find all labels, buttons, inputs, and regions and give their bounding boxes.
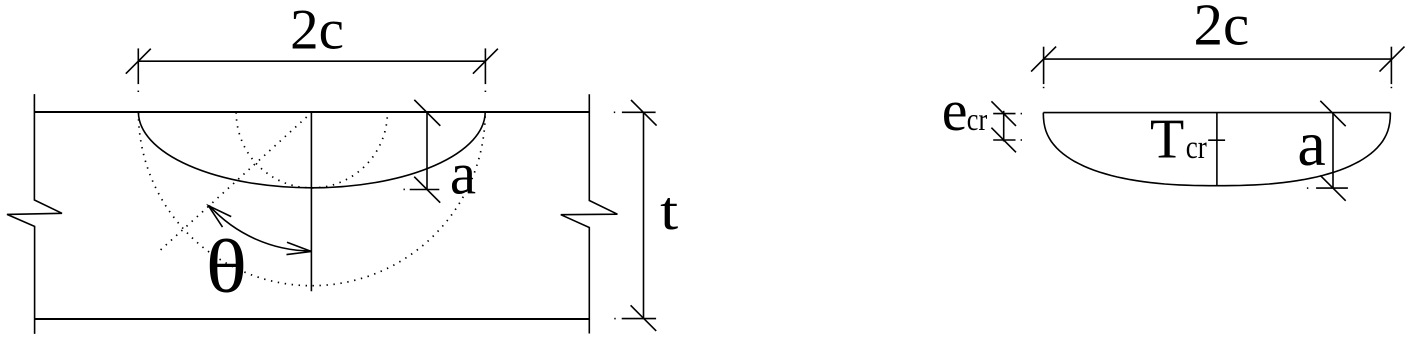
2c right-fig right extension dot [1390,87,1392,88]
svg-text:T: T [1150,108,1184,170]
dimension a: vertical line [426,112,428,190]
a right bottom extension line [1316,187,1348,189]
crack centre vertical line [310,112,312,291]
dotted circle radius a [236,112,387,188]
t top extension line [622,111,656,113]
dimension t: dimension line [643,112,645,319]
svg-text:e: e [942,78,968,143]
theta angle arc arrow [209,206,311,251]
2c right-fig left extension dot [1043,87,1045,88]
svg-text:2c: 2c [1193,0,1249,58]
svg-text:t: t [660,181,678,242]
dotted circle radius c [138,112,485,285]
2c left tick [126,49,151,74]
2c right-fig right tick [1380,47,1405,72]
svg-text:θ: θ [206,223,247,308]
dimension e_cr: vertical line [1003,111,1005,142]
dimension 2c (right): dimension line [1044,58,1392,60]
dotted radial line at angle theta [157,112,312,253]
svg-text:cr: cr [1186,129,1207,166]
dimension a: top tick [414,100,440,126]
e_cr top extension line [993,113,1015,115]
2c right-fig left extension line [1043,47,1045,84]
a right extension dot [1307,187,1308,189]
svg-text:cr: cr [967,103,988,138]
plate top surface line [34,111,589,113]
T_cr crossbar tick [1208,139,1225,141]
t top extension dot [614,111,615,113]
2c right-fig left tick [1031,47,1056,72]
2c right extension dot [484,91,486,92]
crack lower front curve [1043,113,1390,186]
svg-text:a: a [450,140,476,206]
2c right extension line [484,48,486,84]
dimension a (right): vertical line [1332,113,1334,189]
crack chord (top) line [1043,112,1390,114]
dimension a: bottom extension line [410,189,440,191]
e_cr bottom tick [991,128,1016,153]
e_cr bottom extension dot [1021,139,1022,141]
a right bottom tick [1320,175,1345,200]
a right top tick [1320,101,1345,126]
e_cr top tick [991,101,1016,126]
plate left edge with break symbol [7,94,62,334]
2c left extension dot [137,91,139,92]
t bottom tick [631,305,657,331]
crack centre vertical line [1216,113,1218,186]
svg-text:a: a [1297,108,1325,179]
e_cr bottom extension line [993,139,1015,141]
semi-elliptical crack front (solid) [138,112,485,188]
dimension a: bottom tick [414,177,440,203]
e_cr top extension dot [1021,113,1022,115]
t bottom extension line [622,318,656,320]
theta arrowhead right [287,242,312,254]
dimension a: extension dot [404,188,405,190]
plate right edge with break symbol [561,94,618,333]
t top tick [631,100,657,126]
2c left extension line [137,48,139,84]
2c right-fig right extension line [1390,47,1392,84]
plate bottom line [35,318,590,320]
dimension 2c (left): dimension line [138,60,485,62]
theta arrowhead left [208,206,231,227]
svg-text:2c: 2c [290,0,344,61]
t bottom extension dot [614,318,615,320]
2c right tick [473,49,498,74]
